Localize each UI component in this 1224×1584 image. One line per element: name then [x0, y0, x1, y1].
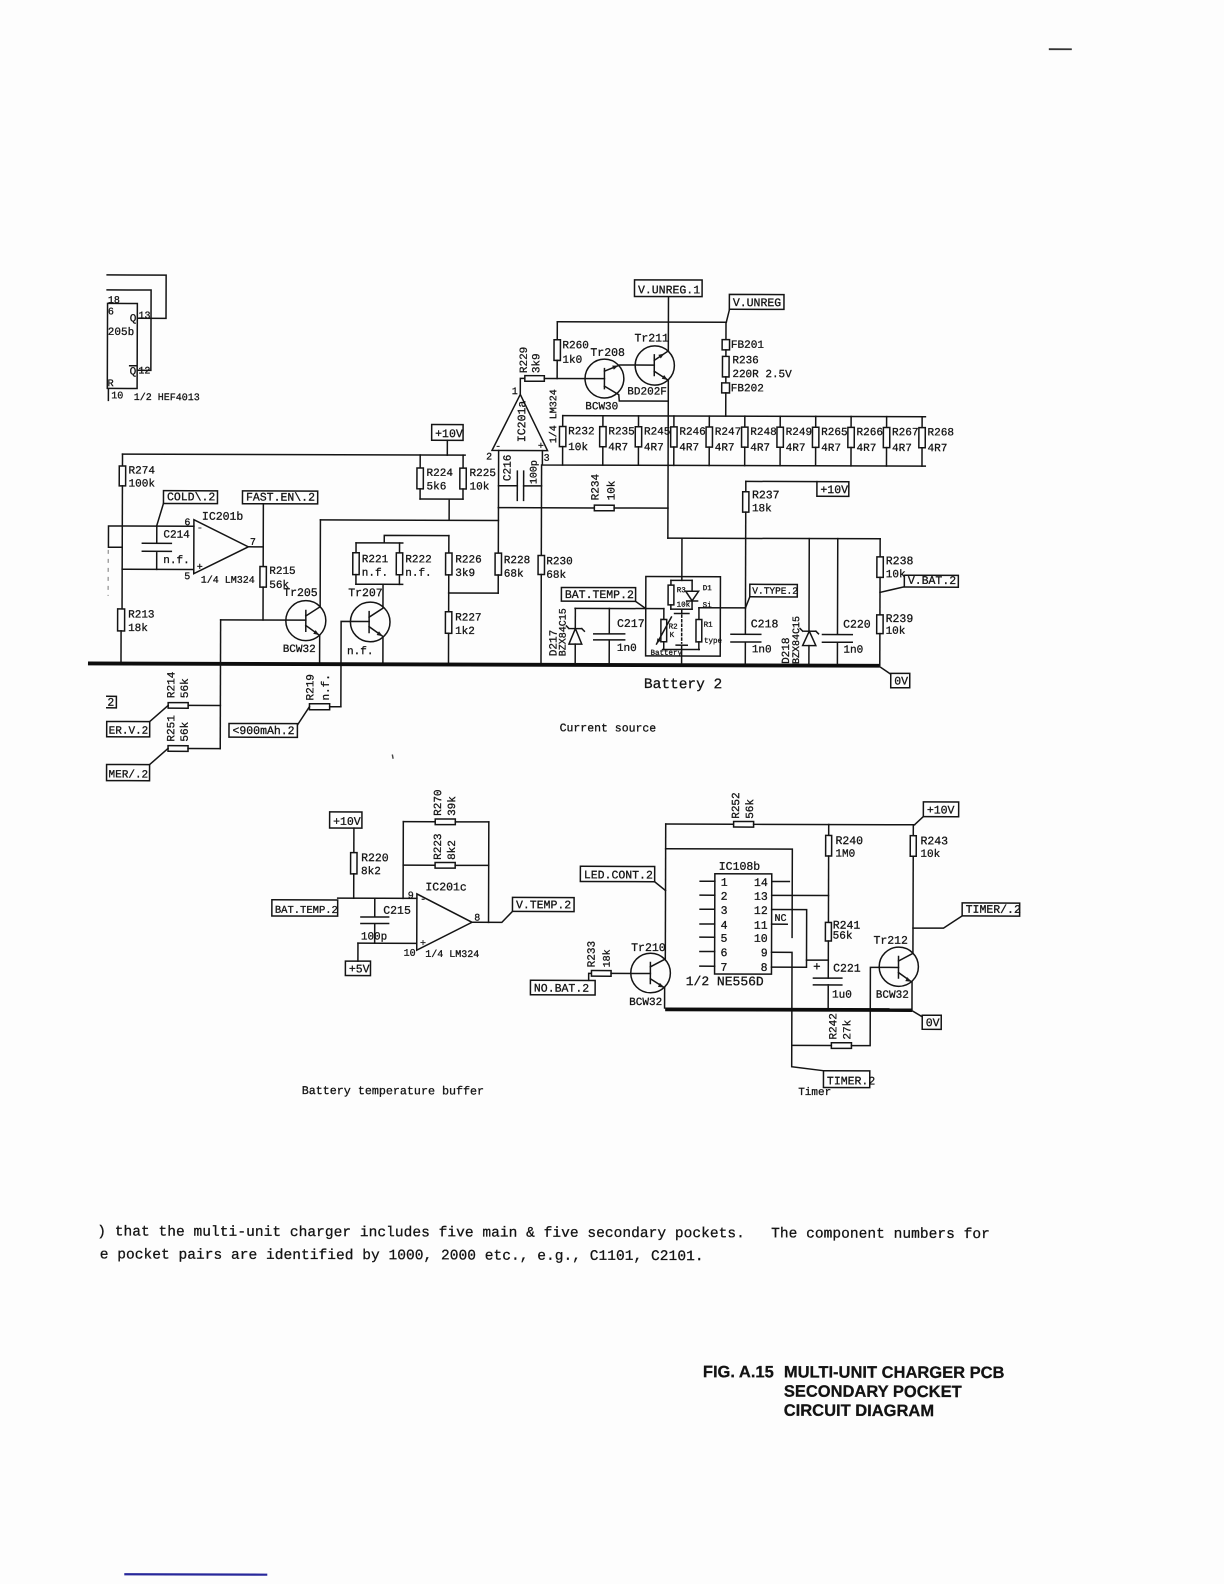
wire: R3/D1 bottom bracket: [671, 608, 692, 610]
wire: R226/R228 bottoms tie: [449, 592, 498, 594]
wire: feedback right vertical: [488, 822, 490, 922]
svg-text:BCW30: BCW30: [585, 401, 618, 413]
svg-text:BAT.TEMP.2: BAT.TEMP.2: [275, 905, 338, 917]
svg-text:V.UNREG: V.UNREG: [733, 297, 781, 310]
svg-text:1/4 LM324: 1/4 LM324: [425, 949, 479, 961]
svg-text:V.TEMP.2: V.TEMP.2: [516, 899, 571, 912]
resistor R266 4R7: [850, 417, 852, 428]
svg-text:Q: Q: [130, 313, 137, 325]
svg-text:BCW32: BCW32: [283, 644, 316, 656]
svg-text:10k: 10k: [568, 442, 588, 454]
resistor R247 4R7: [708, 416, 710, 427]
wire: +10V distribution top: [123, 454, 466, 455]
node V.UNREG label: [729, 294, 784, 309]
wire: +10V stem: [446, 440, 448, 455]
wire: FAST.EN stem through pin7 to R215: [262, 504, 264, 567]
svg-text:4R7: 4R7: [892, 443, 912, 455]
svg-text:1/4 LM324: 1/4 LM324: [548, 389, 560, 443]
svg-text:4R7: 4R7: [679, 442, 699, 454]
power +5V label: [345, 961, 370, 975]
wire: +5V to pin10: [357, 943, 359, 961]
wire: rail to 0V label diagonal: [880, 667, 892, 675]
resistor R229 3k9: [525, 376, 545, 382]
svg-text:1/2 HEF4013: 1/2 HEF4013: [134, 392, 200, 404]
wire: R221/R222 bottom bracket: [356, 583, 403, 585]
resistor R215 56k: [260, 567, 266, 588]
wire: R237 down to C218/V.TYPE junction: [744, 608, 746, 634]
wire: Tr205 base down through rail to R214/R251: [219, 620, 221, 749]
wire: V.TYPE diagonal: [745, 597, 749, 608]
svg-text:R: R: [108, 379, 114, 390]
svg-text:9: 9: [761, 947, 768, 960]
svg-text:+10V: +10V: [333, 816, 361, 829]
resistor R232 10k: [562, 416, 564, 427]
wire: Tr207 base from R219: [341, 621, 369, 706]
svg-text:Si: Si: [703, 602, 713, 610]
svg-text:R221: R221: [362, 554, 389, 566]
svg-text:R235: R235: [608, 426, 634, 438]
svg-text:3: 3: [544, 454, 550, 465]
svg-text:R240: R240: [835, 835, 863, 848]
wire: pin9 input net: [338, 897, 417, 899]
svg-text:SECONDARY POCKET: SECONDARY POCKET: [784, 1383, 962, 1402]
svg-text:Tr207: Tr207: [348, 587, 383, 600]
svg-text:R260: R260: [562, 340, 588, 352]
svg-text:10: 10: [754, 933, 768, 946]
svg-text:TIMER.2: TIMER.2: [827, 1075, 875, 1088]
svg-text:Tr210: Tr210: [631, 942, 666, 955]
wire: IC201b pin6 input: [108, 526, 193, 547]
transistor Tr211 BD202F: [635, 346, 674, 385]
node V.UNREG.1 label: [634, 280, 702, 297]
wire: COLD diagonal: [157, 503, 164, 526]
resistor R234 10k: [498, 507, 594, 509]
svg-text:R251: R251: [166, 715, 178, 742]
svg-text:10k: 10k: [886, 626, 906, 638]
node COLD\.2 label: [163, 491, 217, 504]
wire: pin9 timer output: [771, 952, 792, 1045]
svg-text:n.f.: n.f.: [321, 674, 333, 700]
Tr207 emitter: [369, 627, 383, 637]
svg-text:IC108b: IC108b: [719, 861, 761, 874]
resistor R270 39k: [403, 821, 435, 823]
node LED.CONT.2 label: [580, 866, 654, 881]
svg-text:10: 10: [404, 949, 416, 960]
wire: TIMER/ to R243 net: [913, 916, 962, 928]
wire: R3/D1 top bracket: [671, 579, 692, 581]
wire: V.UNREG.1 stem down to Tr211 collector: [667, 297, 669, 351]
svg-text:MULTI-UNIT CHARGER PCB: MULTI-UNIT CHARGER PCB: [784, 1363, 1005, 1382]
svg-text:Battery temperature buffer: Battery temperature buffer: [302, 1084, 484, 1099]
resistor R219 n.f.: [309, 704, 329, 710]
svg-text:1u0: 1u0: [832, 990, 852, 1002]
resistor R260 1k0: [554, 322, 561, 379]
svg-text:NC: NC: [775, 914, 787, 925]
wire: Qbar pin 12 feedback: [107, 290, 151, 370]
pin 10 stub: [107, 389, 109, 400]
svg-text:10k: 10k: [920, 849, 940, 861]
svg-text:1n0: 1n0: [617, 643, 637, 655]
svg-text:18: 18: [108, 296, 120, 307]
svg-text:4R7: 4R7: [715, 442, 735, 454]
svg-text:Current source: Current source: [560, 722, 657, 735]
svg-text:<900mAh.2: <900mAh.2: [232, 725, 294, 738]
wire: timer box left vertical (LED.CONT net): [664, 824, 666, 959]
capacitor C221 1u0: [813, 978, 841, 1008]
svg-text:2: 2: [721, 891, 728, 904]
resistor R237 18k: [745, 481, 747, 491]
svg-text:Tr208: Tr208: [590, 347, 625, 360]
svg-text:100p: 100p: [361, 931, 387, 943]
svg-text:R249: R249: [786, 427, 812, 439]
svg-text:-: -: [420, 895, 426, 906]
svg-text:2: 2: [107, 697, 114, 710]
svg-text:14: 14: [754, 877, 768, 890]
resistor R274 100k: [121, 454, 123, 466]
svg-text:18k: 18k: [752, 503, 772, 515]
svg-text:ER.V.2: ER.V.2: [109, 726, 149, 738]
pin 14 stub: [772, 880, 790, 882]
svg-text:FAST.EN\.2: FAST.EN\.2: [246, 492, 315, 505]
resistor R267 4R7: [886, 417, 888, 428]
wire: pin2 net to Tr205 collector: [320, 519, 498, 522]
svg-text:C220: C220: [843, 619, 871, 632]
wire: IC201b pin5 input: [122, 568, 194, 570]
Tr211 emitter: [654, 371, 668, 380]
node BAT.TEMP.2 label (buffer): [272, 900, 338, 916]
svg-text:10k: 10k: [886, 569, 906, 581]
svg-text:10k: 10k: [469, 481, 489, 493]
resistor R249 4R7: [779, 416, 781, 427]
svg-text:R248: R248: [750, 427, 776, 439]
power +10V label (timer): [923, 802, 958, 817]
resistor R239 10k: [877, 615, 883, 634]
svg-text:1: 1: [512, 387, 518, 398]
svg-text:+10V: +10V: [820, 484, 848, 497]
svg-text:0V: 0V: [926, 1017, 940, 1030]
svg-text:R252: R252: [731, 792, 743, 818]
svg-text:R222: R222: [405, 554, 431, 566]
svg-text:BZX84C15: BZX84C15: [559, 608, 570, 656]
resistor R222 n.f.: [399, 543, 401, 553]
resistor R227 1k2: [448, 593, 450, 612]
resistor R248 4R7: [744, 416, 746, 427]
svg-text:BZX84C15: BZX84C15: [792, 616, 803, 664]
svg-text:Timer: Timer: [798, 1087, 831, 1099]
pin 11 stub: [772, 923, 788, 925]
resistor R236 220R 2.5W: [725, 350, 727, 357]
svg-text:56k: 56k: [180, 678, 192, 698]
resistor R245 4R7: [637, 416, 639, 427]
transistor Tr210 BCW32: [631, 953, 671, 993]
svg-text:0V: 0V: [894, 676, 908, 689]
wire: BAT.TEMP.2 net: [575, 607, 664, 609]
svg-text:4R7: 4R7: [750, 443, 770, 455]
resistor R1 type: [698, 608, 700, 620]
svg-text:4: 4: [721, 920, 728, 933]
svg-text:13: 13: [139, 311, 151, 322]
wire: pin13 to R240/R241: [772, 894, 829, 896]
svg-text:COLD\.2: COLD\.2: [167, 491, 215, 504]
svg-text:7: 7: [720, 962, 727, 975]
zener diode D218 BZX84C15: [808, 539, 810, 632]
svg-text:6: 6: [108, 307, 114, 318]
svg-text:R266: R266: [857, 427, 883, 439]
node <900mAh.2 label: [229, 723, 297, 737]
Tr208 collector to Tr211 base: [604, 365, 654, 371]
Tr207 collector up to R221/R222: [369, 584, 383, 617]
transistor Tr208 BCW30: [585, 359, 624, 398]
svg-text:n.f.: n.f.: [405, 568, 431, 580]
svg-text:56k: 56k: [745, 799, 757, 819]
svg-text:R2: R2: [669, 624, 678, 632]
resistor R221 n.f.: [355, 543, 357, 553]
svg-text:type: type: [704, 638, 722, 646]
svg-text:12: 12: [138, 366, 150, 377]
power +10V label (battery): [817, 482, 849, 497]
node FAST.EN\.2 label: [242, 491, 317, 504]
svg-text:R239: R239: [886, 613, 914, 626]
resistor R228 68k: [495, 553, 501, 575]
svg-text:+10V: +10V: [927, 804, 955, 817]
resistor R241 56k: [825, 922, 831, 941]
svg-text:4R7: 4R7: [928, 443, 948, 455]
Tr205 collector up to pin2 net: [306, 520, 321, 616]
svg-text:1k2: 1k2: [455, 626, 475, 638]
wire: resistor bank bottom rail / IC201a pin3 sense: [542, 451, 925, 467]
svg-text:1: 1: [721, 877, 728, 890]
battery model box: [646, 576, 721, 656]
svg-text:R225: R225: [470, 468, 496, 480]
Tr205 emitter: [306, 625, 320, 635]
resistor R226 3k9: [448, 536, 450, 553]
svg-text:C218: C218: [751, 618, 779, 631]
ferrite bead FB202: [725, 377, 727, 383]
svg-text:3k9: 3k9: [531, 353, 543, 373]
stray tick: [391, 755, 394, 759]
svg-text:R214: R214: [166, 671, 178, 698]
resistor R214 56k: [168, 703, 188, 709]
resistor R225 10k: [462, 455, 464, 468]
svg-text:R228: R228: [504, 555, 530, 567]
svg-text:R234: R234: [590, 474, 602, 501]
wire: +10V diagonal: [915, 817, 924, 825]
svg-text:R223: R223: [433, 833, 445, 859]
wire: pin8 output: [472, 911, 512, 922]
capacitor C215 100p: [361, 898, 389, 943]
svg-text:1n0: 1n0: [752, 644, 772, 656]
svg-text:8: 8: [761, 962, 768, 975]
svg-text:R227: R227: [455, 612, 481, 624]
svg-text:R229: R229: [519, 347, 531, 373]
resistor R252 56k: [666, 823, 734, 825]
wire: FB202 to resistor bank rail: [725, 393, 727, 416]
svg-text:+: +: [420, 939, 426, 950]
svg-text:R230: R230: [546, 556, 572, 568]
svg-text:68k: 68k: [504, 569, 524, 581]
svg-text:1k0: 1k0: [562, 355, 582, 367]
thermistor R2 K: [663, 609, 665, 620]
page mark dash top right: [1049, 48, 1072, 50]
Tr208 emitter: [604, 386, 668, 401]
wire: resistor bank top rail (V.UNREG): [563, 416, 926, 417]
svg-text:4R7: 4R7: [608, 442, 628, 454]
node V.TEMP.2 label: [512, 897, 574, 911]
svg-text:27k: 27k: [842, 1019, 854, 1039]
svg-text:+: +: [813, 960, 821, 974]
wire: Tr211 emitter to battery net: [667, 380, 669, 538]
svg-text:CIRCUIT DIAGRAM: CIRCUIT DIAGRAM: [784, 1402, 934, 1420]
resistor R223 8k2: [403, 864, 435, 866]
wire: pin9 down to TIMER.2: [792, 1045, 824, 1070]
svg-text:+: +: [197, 563, 203, 574]
svg-text:BD202F: BD202F: [627, 386, 667, 398]
wire: timer box top (pin10 net): [665, 849, 792, 938]
svg-text:5: 5: [721, 933, 728, 946]
svg-text:R243: R243: [920, 835, 948, 848]
svg-text:2: 2: [486, 453, 492, 464]
wire: R224/R225 bottom bracket to pin2 net: [420, 499, 463, 520]
wire: pin1 output up: [520, 378, 525, 394]
svg-text:+5V: +5V: [349, 963, 370, 976]
svg-text:e pocket pairs are identified: e pocket pairs are identified by 1000, 2…: [100, 1247, 704, 1265]
diode D1 Si: [691, 580, 693, 591]
svg-text:4R7: 4R7: [644, 442, 664, 454]
svg-text:10k: 10k: [677, 602, 691, 610]
page edge remnant: [107, 550, 109, 596]
svg-text:TIMER/.2: TIMER/.2: [966, 904, 1021, 917]
wire: 0V ground rail Battery 2: [88, 663, 880, 665]
svg-text:n.f.: n.f.: [362, 568, 388, 580]
wire: Tr205 base: [221, 619, 306, 621]
svg-text:C215: C215: [383, 905, 411, 918]
wire: pin10 input: [358, 942, 417, 944]
wire: pin2 net vertical: [497, 486, 499, 553]
capacitor C214 n.f.: [142, 526, 171, 569]
svg-text:Battery 2: Battery 2: [644, 677, 722, 693]
power +10V label (top): [432, 425, 463, 441]
svg-text:4R7: 4R7: [821, 443, 841, 455]
svg-text:100k: 100k: [129, 478, 156, 490]
wire: battery plus / V.BAT net: [668, 537, 880, 540]
svg-text:BCW32: BCW32: [629, 997, 662, 1009]
svg-text:10k: 10k: [606, 480, 618, 500]
resistor R246 4R7: [673, 416, 675, 427]
IC IC205b (1/2 HEF4013) box fragment: [107, 303, 137, 388]
svg-text:IC201b: IC201b: [202, 511, 244, 524]
svg-text:39k: 39k: [447, 796, 459, 816]
ground 0V label (timer): [922, 1015, 941, 1029]
resistor R220 8k2: [353, 828, 355, 852]
svg-text:R213: R213: [128, 609, 154, 621]
svg-text:18k: 18k: [602, 949, 614, 967]
svg-text:C221: C221: [833, 963, 861, 976]
Tr212 collector: [899, 954, 913, 961]
svg-text:13: 13: [754, 891, 768, 904]
Tr210 collector up to timer net: [650, 959, 665, 967]
Tr210 emitter: [650, 979, 664, 988]
svg-text:R237: R237: [752, 489, 780, 502]
battery cell symbol: [675, 609, 689, 613]
svg-text:6: 6: [721, 947, 728, 960]
wire: R229 to Tr208 base: [544, 377, 604, 379]
svg-text:205b: 205b: [108, 327, 134, 339]
svg-text:11: 11: [754, 920, 768, 933]
svg-text:-: -: [197, 524, 203, 535]
svg-text:9: 9: [408, 891, 414, 902]
resistor R233 18k: [589, 973, 592, 980]
svg-text:R219: R219: [305, 674, 317, 700]
svg-text:18k: 18k: [128, 623, 148, 635]
wire: V.BAT diagonal: [880, 587, 904, 593]
svg-text:R265: R265: [821, 427, 847, 439]
svg-text:3k9: 3k9: [455, 568, 475, 580]
svg-text:IC201a: IC201a: [516, 401, 529, 443]
svg-text:R233: R233: [587, 941, 599, 967]
svg-text:3: 3: [721, 905, 728, 918]
node TIMER.2 label: [823, 1071, 869, 1088]
wire: pin12 to C221 top: [772, 909, 807, 960]
node ER.V.2 cut label: [107, 721, 150, 736]
wire: R221/R222 top bracket from R226: [356, 535, 449, 543]
IC IC108b box: [715, 874, 772, 974]
svg-text:R242: R242: [828, 1013, 840, 1039]
svg-text:R232: R232: [568, 426, 594, 438]
svg-text:12: 12: [754, 905, 768, 918]
svg-text:1M0: 1M0: [835, 849, 855, 861]
node V.BAT.2 label: [904, 575, 958, 587]
svg-text:n.f.: n.f.: [347, 646, 373, 658]
node V.TYPE.2 label: [750, 584, 798, 597]
transistor Tr212 BCW32: [879, 947, 918, 986]
svg-text:FB201: FB201: [731, 340, 764, 352]
wire: 0V rail timer: [665, 1007, 912, 1012]
svg-text:68k: 68k: [546, 570, 566, 582]
svg-text:BAT.TEMP.2: BAT.TEMP.2: [565, 589, 634, 602]
svg-text:R238: R238: [886, 555, 914, 568]
wire: R237 to +10V: [746, 480, 817, 482]
wire: BAT.TEMP diagonal: [636, 601, 646, 608]
svg-text:56k: 56k: [833, 931, 853, 943]
svg-text:Battery: Battery: [651, 650, 683, 658]
op-amp IC201b triangle: [194, 520, 249, 574]
wire: rail to 0V label diagonal: [912, 1011, 922, 1017]
ferrite bead FB201: [725, 322, 727, 339]
svg-text:NO.BAT.2: NO.BAT.2: [534, 983, 589, 996]
svg-text:1/2 NE556D: 1/2 NE556D: [686, 974, 764, 989]
wire: Q pin 13 feedback: [107, 275, 166, 318]
node TIMER/.2 label: [962, 903, 1020, 916]
node MER/.2 cut label: [107, 764, 150, 780]
op-amp IC201a triangle: [492, 394, 548, 450]
svg-text:K: K: [670, 632, 675, 640]
svg-text:V.BAT.2: V.BAT.2: [908, 575, 956, 588]
svg-text:R215: R215: [269, 566, 295, 578]
svg-text:V.TYPE.2: V.TYPE.2: [752, 586, 798, 597]
resistor R242 27k: [831, 1043, 851, 1049]
svg-text:100p: 100p: [530, 460, 541, 484]
wire: V.UNREG diagonal: [726, 309, 729, 322]
svg-text:C214: C214: [163, 530, 190, 542]
svg-text:1n0: 1n0: [843, 645, 863, 657]
wire: V.UNREG.1 top rail: [557, 321, 726, 324]
capacitor C218 1n0: [731, 634, 761, 663]
svg-text:4R7: 4R7: [786, 443, 806, 455]
svg-text:R220: R220: [361, 852, 389, 865]
svg-text:56k: 56k: [180, 721, 192, 741]
svg-text:R268: R268: [928, 427, 954, 439]
IC108b left pin stubs 1-7: [700, 880, 715, 882]
